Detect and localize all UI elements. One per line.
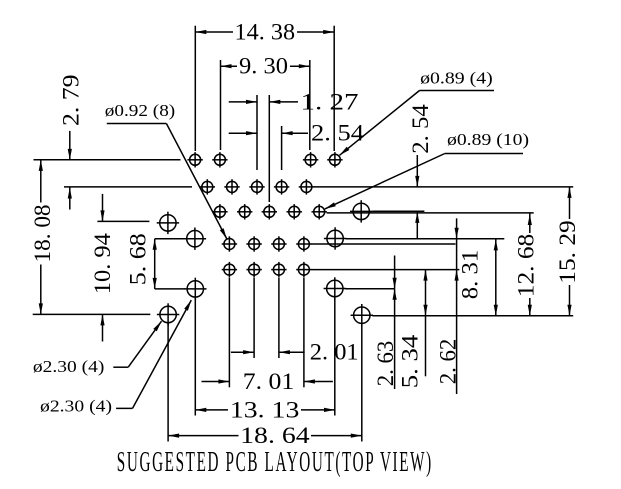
label 2.30 (4) first leader bbox=[128, 321, 161, 367]
dimension 7.01 right tail bbox=[304, 381, 333, 383]
hole pad 0.89mm row3 #2 bbox=[237, 204, 252, 219]
dimension 2.01 left arrow bbox=[243, 350, 254, 354]
extension line row4 right bbox=[311, 243, 455, 245]
label 0.92 (8) underline bbox=[107, 123, 167, 125]
dimension 2.54 top right tail bbox=[282, 132, 308, 134]
dimension 5.68 bottom arrow bbox=[153, 278, 157, 289]
label 0.92 (8) leader arrow bbox=[220, 228, 227, 239]
dimension 18.08 line bottom segment bbox=[40, 265, 42, 315]
svg-text:2. 79: 2. 79 bbox=[58, 75, 83, 127]
dimension 18.64 left arrow bbox=[168, 434, 179, 438]
dimension 2.54 top right arrow bbox=[282, 131, 293, 135]
dimension 15.29 line top segment bbox=[569, 187, 571, 219]
svg-text:18. 64: 18. 64 bbox=[240, 423, 310, 448]
extension line row5 right bbox=[311, 269, 459, 271]
dimension 2.63 lower arrow bbox=[393, 289, 397, 300]
dimension 2.79 bottom tail bbox=[69, 188, 71, 210]
extension line row3 right bbox=[327, 212, 534, 214]
dimension 5.34 bottom arrow bbox=[423, 305, 427, 316]
extension line 2.54 right bbox=[281, 126, 283, 170]
hole pad 0.92mm row5 #1 bbox=[222, 262, 237, 277]
extension line inner lower-left hole bbox=[155, 288, 185, 290]
dimension 18.64 line right segment bbox=[311, 435, 362, 437]
extension line row2 right bbox=[314, 186, 573, 188]
extension line inner upper-left hole bbox=[155, 238, 185, 240]
dimension 13.13 right arrow bbox=[324, 408, 335, 412]
hole pad 0.89mm row3 #5 bbox=[312, 204, 327, 219]
extension line outer lower-right hole bbox=[372, 315, 573, 317]
hole pad 2.30mm inner lower-left bbox=[184, 278, 206, 300]
dimension 18.08 bottom arrow bbox=[39, 303, 43, 314]
extension line inner upper-right hole bbox=[346, 238, 505, 240]
svg-text:1. 27: 1. 27 bbox=[301, 89, 359, 114]
svg-text:ø2.30 (4): ø2.30 (4) bbox=[33, 357, 105, 376]
extension line 14.38 left bbox=[194, 26, 196, 151]
dimension 18.64 right arrow bbox=[351, 434, 362, 438]
label 0.89 (10) leader bbox=[325, 154, 445, 209]
dimension 1.27 right arrow bbox=[269, 100, 280, 104]
extension line row5 col1 down bbox=[228, 278, 230, 388]
dimension 2.54 top left arrow bbox=[246, 131, 257, 135]
dimension 13.13 line left segment bbox=[195, 409, 228, 411]
svg-text:2. 01: 2. 01 bbox=[310, 339, 359, 364]
extension line 1.27 left bbox=[256, 95, 258, 170]
dimension 2.79 bottom arrow bbox=[68, 188, 72, 199]
dimension 2.54 right bottom tail bbox=[416, 212, 418, 239]
hole pad 2.30mm outer lower-right bbox=[351, 304, 373, 326]
label 0.92 (8) leader bbox=[166, 124, 226, 239]
hole pad 0.92mm row4 #3 bbox=[271, 236, 286, 251]
svg-text:ø0.92 (8): ø0.92 (8) bbox=[105, 101, 175, 120]
extension line outer upper-right hole bbox=[372, 210, 424, 212]
dimension 1.27 left tail bbox=[229, 101, 257, 103]
label 0.89 (4) underline bbox=[420, 90, 495, 92]
hole pad 0.92mm row5 #4 bbox=[296, 262, 311, 277]
hole pad 2.30mm outer lower-left bbox=[157, 303, 179, 325]
svg-text:7. 01: 7. 01 bbox=[243, 369, 295, 394]
hole pad 0.89mm row2 #2 bbox=[224, 179, 239, 194]
dimension 7.01 left tail bbox=[202, 381, 230, 383]
dimension 8.31 line bbox=[495, 239, 497, 315]
hole pad 0.89mm row2 #1 bbox=[200, 179, 215, 194]
dimension 5.34 line bbox=[425, 270, 427, 377]
hole pad 0.92mm row4 #1 bbox=[222, 236, 237, 251]
dimension 14.38 left arrow bbox=[195, 30, 206, 34]
label 2.30 (4) first stub bbox=[113, 366, 128, 368]
hole pad 0.92mm row4 #2 bbox=[246, 236, 261, 251]
dimension 14.38 line right segment bbox=[297, 31, 334, 33]
extension line inner lower-right hole down bbox=[334, 297, 336, 416]
svg-text:2. 62: 2. 62 bbox=[436, 339, 461, 385]
dimension 2.79 top arrow bbox=[68, 149, 72, 160]
dimension 10.94 top tail bbox=[102, 194, 104, 222]
label 2.30 (4) second leader arrow bbox=[184, 300, 191, 311]
dimension 2.54 right bottom arrow bbox=[415, 212, 419, 223]
svg-text:12. 68: 12. 68 bbox=[513, 234, 538, 298]
label 2.30 (4) second stub bbox=[116, 407, 132, 409]
dimension 15.29 line bottom segment bbox=[569, 285, 571, 316]
hole pad 0.92mm row5 #2 bbox=[246, 262, 261, 277]
extension line 14.38 right bbox=[333, 26, 335, 151]
extension line outer upper-left hole bbox=[97, 220, 149, 222]
dimension 9.30 line right segment bbox=[290, 65, 310, 67]
svg-text:18. 08: 18. 08 bbox=[30, 205, 55, 263]
dimension 15.29 bottom arrow bbox=[567, 305, 571, 316]
dimension 2.63 lower line bbox=[394, 289, 396, 389]
dimension 2.62 bottom arrow bbox=[455, 270, 459, 281]
dimension 2.63 upper arrow bbox=[393, 278, 397, 289]
hole pad 0.89mm row2 #4 bbox=[274, 179, 289, 194]
dimension 13.13 left arrow bbox=[195, 408, 206, 412]
dimension 12.68 top arrow bbox=[528, 214, 532, 225]
dimension 9.30 line left segment bbox=[221, 65, 238, 67]
dimension 14.38 line left segment bbox=[195, 31, 233, 33]
dimension 2.01 left tail bbox=[231, 351, 254, 353]
dimension 13.13 line right segment bbox=[301, 409, 335, 411]
svg-text:9. 30: 9. 30 bbox=[239, 54, 288, 79]
svg-text:8. 31: 8. 31 bbox=[457, 250, 482, 300]
svg-text:15. 29: 15. 29 bbox=[555, 220, 580, 284]
dimension 1.27 right tail bbox=[269, 101, 298, 103]
hole pad 2.30mm outer upper-left bbox=[157, 212, 179, 234]
extension line row5 col2 down bbox=[253, 278, 255, 358]
hole pad 0.92mm row5 #3 bbox=[271, 262, 286, 277]
svg-text:SUGGESTED PCB LAYOUT(TOP VIEW): SUGGESTED PCB LAYOUT(TOP VIEW) bbox=[117, 447, 433, 478]
svg-text:ø2.30 (4): ø2.30 (4) bbox=[40, 396, 112, 415]
dimension 1.27 left arrow bbox=[246, 100, 257, 104]
hole pad 0.89mm row3 #1 bbox=[212, 204, 227, 219]
hole pad 2.30mm inner upper-right bbox=[324, 227, 346, 249]
extension line outer lower-left hole down bbox=[167, 323, 169, 442]
hole pad 0.89mm row2 #3 bbox=[249, 179, 264, 194]
hole pad 0.89mm row1 #4 bbox=[327, 152, 342, 167]
svg-text:5. 68: 5. 68 bbox=[126, 233, 151, 285]
extension line row5 col3 down bbox=[278, 278, 280, 358]
hole pad 0.89mm row3 #4 bbox=[287, 204, 302, 219]
dimension 7.01 right arrow bbox=[304, 379, 315, 383]
extension line 9.30 left bbox=[220, 60, 222, 150]
svg-text:ø0.89 (4): ø0.89 (4) bbox=[420, 69, 493, 88]
extension line row2 left bbox=[64, 186, 192, 188]
svg-text:14. 38: 14. 38 bbox=[235, 20, 296, 45]
svg-text:10. 94: 10. 94 bbox=[90, 233, 115, 295]
extension line outer lower-right hole down bbox=[361, 324, 363, 442]
svg-text:2. 63: 2. 63 bbox=[373, 341, 398, 387]
dimension 18.08 line top segment bbox=[40, 160, 42, 203]
label 0.89 (4) leader bbox=[340, 91, 420, 156]
dimension 12.68 line top segment bbox=[529, 213, 531, 233]
label 2.30 (4) first leader arrow bbox=[153, 321, 161, 331]
extension line inner lower-left hole down bbox=[194, 297, 196, 415]
svg-text:13. 13: 13. 13 bbox=[230, 397, 300, 422]
hole pad 0.89mm row1 #2 bbox=[212, 152, 227, 167]
hole pad 0.89mm row1 #3 bbox=[303, 152, 318, 167]
dimension 5.34 top arrow bbox=[423, 270, 427, 281]
hole pad 2.30mm outer upper-right bbox=[350, 200, 372, 222]
dimension 18.08 top arrow bbox=[39, 160, 43, 171]
dimension 14.38 right arrow bbox=[323, 30, 334, 34]
dimension 8.31 top arrow bbox=[494, 239, 498, 250]
dimension 2.54 top left tail bbox=[229, 132, 257, 134]
dimension 18.64 line left segment bbox=[168, 435, 238, 437]
extension line row5 col4 down bbox=[303, 278, 305, 388]
label 0.89 (10) underline bbox=[445, 153, 523, 155]
extension line outer lower-left hole bbox=[33, 313, 151, 315]
dimension 12.68 line bottom segment bbox=[529, 298, 531, 316]
label 2.30 (4) second leader bbox=[133, 300, 192, 408]
extension line 1.27 right center column bbox=[268, 95, 270, 202]
extension line inner lower-right hole bbox=[345, 288, 395, 290]
dimension 2.54 right top tail bbox=[416, 155, 418, 187]
dimension 10.94 top arrow bbox=[100, 210, 104, 221]
label 0.89 (10) leader arrow bbox=[325, 202, 336, 209]
dimension 7.01 left arrow bbox=[218, 379, 229, 383]
svg-text:ø0.89 (10): ø0.89 (10) bbox=[447, 130, 529, 149]
hole pad 0.89mm row1 #1 bbox=[187, 152, 202, 167]
svg-text:2. 54: 2. 54 bbox=[408, 104, 433, 154]
dimension 5.68 top arrow bbox=[153, 239, 157, 250]
dimension 2.01 right tail bbox=[279, 351, 305, 353]
hole pad 2.30mm inner lower-right bbox=[324, 277, 346, 299]
svg-text:5. 34: 5. 34 bbox=[397, 334, 422, 388]
dimension 2.63 upper line bbox=[394, 256, 396, 289]
hole pad 0.89mm row2 #5 bbox=[299, 179, 314, 194]
hole pad 2.30mm inner upper-left bbox=[184, 228, 206, 250]
hole pad 0.89mm row3 #3 bbox=[262, 204, 277, 219]
dimension 2.62 line bbox=[456, 218, 458, 394]
dimension 12.68 bottom arrow bbox=[528, 305, 532, 316]
dimension 10.94 bottom arrow bbox=[100, 314, 104, 325]
dimension 10.94 bottom tail bbox=[102, 314, 104, 341]
dimension 8.31 bottom arrow bbox=[494, 305, 498, 316]
extension line 9.30 right bbox=[309, 60, 311, 150]
extension line row1 left bbox=[34, 159, 181, 161]
hole pad 0.92mm row4 #4 bbox=[296, 236, 311, 251]
dimension 2.54 right top arrow bbox=[415, 176, 419, 187]
dimension 9.30 right arrow bbox=[299, 64, 310, 68]
label 0.89 (4) leader arrow bbox=[340, 147, 350, 156]
dimension 2.01 right arrow bbox=[279, 350, 290, 354]
dimension 5.68 line bbox=[154, 239, 156, 289]
dimension 2.62 top arrow bbox=[455, 228, 459, 239]
dimension 15.29 top arrow bbox=[567, 187, 571, 198]
dimension 9.30 left arrow bbox=[221, 64, 232, 68]
dimension 2.79 top tail bbox=[69, 131, 71, 160]
